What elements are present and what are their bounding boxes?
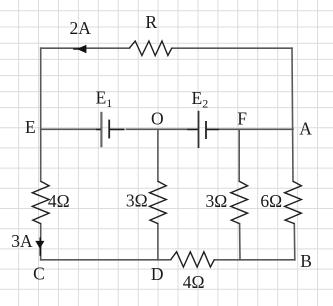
wire: top side (corner E-top to corner A-top) — [41, 47, 292, 49]
wire: F to bottom vertical — [238, 129, 241, 259]
svg-text:3Ω: 3Ω — [206, 191, 228, 211]
battery E1 long plate — [100, 112, 102, 147]
battery E2 short plate — [205, 121, 207, 139]
wire: middle horizontal E-O-F-A — [41, 128, 293, 130]
svg-text:4Ω: 4Ω — [48, 191, 70, 211]
resistor 3Ω (F branch vertical zigzag) — [231, 181, 248, 223]
resistor R (top, horizontal zigzag) — [129, 41, 171, 56]
battery E2 lead stubs — [187, 128, 219, 130]
resistor 6Ω (right side vertical zigzag) — [285, 181, 302, 223]
battery E1 lead stubs — [96, 128, 124, 130]
battery E1 short plate — [108, 120, 110, 139]
resistor 4Ω (left vertical zigzag) — [32, 181, 49, 223]
svg-text:O: O — [151, 109, 164, 129]
svg-text:R: R — [145, 12, 157, 32]
svg-text:F: F — [237, 109, 247, 129]
wire: left side vertical (top corner through E down to C) — [40, 48, 42, 260]
battery E2 long plate — [198, 111, 200, 148]
svg-text:B: B — [300, 251, 312, 271]
wire: bottom side C-D-B — [41, 259, 295, 261]
svg-text:3A: 3A — [11, 231, 33, 251]
resistor 3Ω (middle, O-D vertical zigzag) — [150, 181, 167, 223]
svg-text:6Ω: 6Ω — [260, 191, 282, 211]
svg-text:4Ω: 4Ω — [183, 272, 205, 292]
wire: right side vertical (top corner through A down to B, slight slant) — [292, 48, 295, 260]
svg-text:2A: 2A — [70, 18, 92, 38]
svg-text:D: D — [151, 264, 164, 284]
wire: O to D vertical — [157, 129, 159, 259]
svg-text:C: C — [33, 263, 45, 283]
svg-text:A: A — [299, 119, 312, 139]
current arrow 3A (pointing down on left wire) — [35, 238, 44, 256]
resistor 4Ω (bottom, horizontal zigzag D-B) — [171, 252, 215, 267]
svg-text:3Ω: 3Ω — [126, 191, 148, 211]
svg-text:E: E — [25, 117, 36, 137]
current arrow 2A (pointing left on top wire) — [73, 45, 86, 54]
